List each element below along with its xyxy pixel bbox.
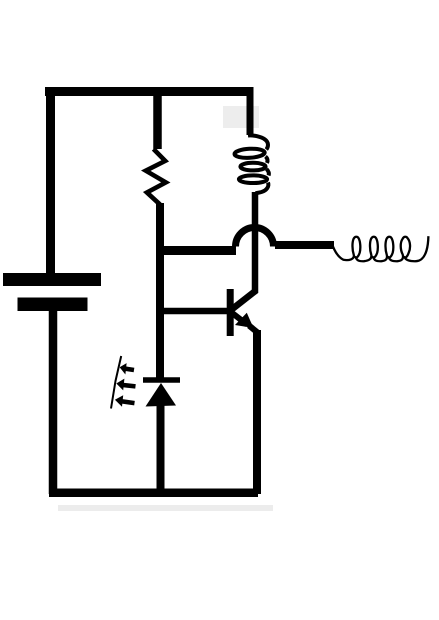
inductor L1 lead-in hook xyxy=(248,135,268,149)
wire top rail xyxy=(45,87,247,96)
wire inductor to crossover vertical xyxy=(252,192,259,293)
wire crossover to antenna coil (right horizontal) xyxy=(275,241,334,249)
inductor L1 loop 1 xyxy=(234,148,265,159)
LED D1 sketch stroke through arrow tips xyxy=(111,356,121,409)
transistor Q1 base bar xyxy=(227,289,234,336)
wire resistor branch from top rail xyxy=(153,87,162,149)
transistor Q1 collector diagonal xyxy=(231,291,256,311)
wire left vertical from top rail to battery xyxy=(46,87,55,274)
wire bottom rail xyxy=(49,489,258,498)
wire below resistor to junction xyxy=(156,203,164,255)
LED D1 emission arrow 2 xyxy=(116,379,135,391)
LED D1 emission arrow 3 xyxy=(115,395,135,407)
wire battery negative to bottom rail xyxy=(49,310,58,494)
wire crossover hop arc xyxy=(236,228,274,247)
inductor L1 link 1-2 xyxy=(266,157,268,164)
LED D1 emission arrow 1 xyxy=(120,363,134,374)
wire emitter to bottom rail xyxy=(253,330,261,494)
transistor Q1 emitter arrowhead xyxy=(235,313,254,328)
LED D1 cathode bar xyxy=(143,377,180,383)
battery B1 top plate xyxy=(3,273,101,286)
wire top rail right drop to inductor xyxy=(247,87,254,135)
inductor L1 loop 3 xyxy=(239,175,267,183)
wire junction to crossover (left horizontal) xyxy=(156,246,236,255)
inductor L1 link 2-3 xyxy=(267,169,269,176)
battery B1 bottom plate xyxy=(18,298,88,312)
inductor L1 exit tail xyxy=(256,183,269,194)
wire base connection xyxy=(158,308,228,315)
LED D1 triangle xyxy=(146,383,177,407)
wire LED to bottom rail xyxy=(157,404,165,494)
transistor Q1 emitter tail xyxy=(249,326,258,333)
wire left branch down to LED xyxy=(156,250,164,380)
inductor L1 loop 2 xyxy=(240,163,265,171)
antenna coil L2 squiggle xyxy=(332,236,429,261)
resistor R1 xyxy=(146,149,166,205)
scan shadow under bottom rail xyxy=(58,505,273,511)
transistor Q1 emitter diagonal xyxy=(232,313,248,325)
scan smudge top right xyxy=(223,106,259,128)
